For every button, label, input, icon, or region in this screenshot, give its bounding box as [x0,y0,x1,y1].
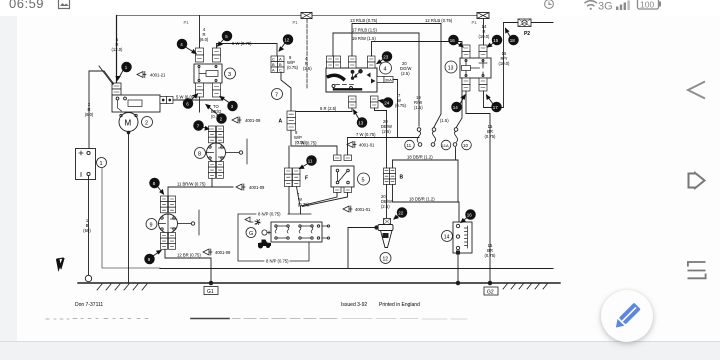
starter solenoid box [112,95,160,112]
wire: comp8 bottom to 11BRW line [211,178,213,187]
label circle 11A [441,140,451,150]
legend inner fuse panel [271,222,322,242]
splice dot 15 [488,35,502,47]
fusible link 11A [431,128,436,147]
wire: relay13 bottom-left to 15BR earth [466,91,490,283]
fuse P2 [518,19,531,27]
component 8 top connector columns [209,126,224,143]
splice dot 2 [206,105,226,124]
component label circle 9 [146,219,157,230]
connector P1 on top rail (x=484) [477,13,489,19]
relay13 top-left connector stack [462,45,470,58]
splice dot 13 [354,110,367,127]
component 8 bottom connector columns [209,162,224,179]
node F connector columns [285,168,301,187]
wire: starter earth [128,134,130,284]
splice dot 9 [145,251,161,264]
wire: 5W from solenoid to relay contacts [173,97,222,100]
horn coil block [383,233,389,238]
wire: node A down and 7W to switch5 [291,130,337,155]
legend arrow and star [245,217,260,225]
splice dot 1 [116,62,131,80]
wire: relay3 bottom-left down [199,97,201,112]
wire: 15 R/Y from P2 down to relay13 [484,23,504,108]
relay3 top-right connector stack [213,48,221,62]
probe terminal right of component 8 [226,139,248,164]
junction dot comp16 rail [456,281,460,285]
label circle 10 [462,140,472,150]
G1 box [204,287,218,295]
wire: grid 7 down to node A [281,73,291,112]
wire: battery feed 5R down from rail [116,16,118,84]
node C1 connector under wire 5R [112,83,121,95]
arrow 4001-01 switch5 [347,142,375,148]
wire: main supply top rail [117,15,479,17]
wire: 4R pilot from rail connector [306,19,308,89]
component label circle 12 [380,253,391,264]
pen scribble mark [57,258,65,270]
switch 5 box [331,166,354,187]
wire: P2 rail [504,22,554,24]
floating action button [601,290,653,342]
splice dot 11 [300,156,317,169]
legend key symbol [262,230,273,235]
component label circle 5 [358,173,370,185]
probe terminal right of component 9 [178,210,200,235]
wire: 13/12 R/LB feed to link2 [352,24,441,128]
ignition top connector stack x352 [349,56,357,68]
ignition top connector stack x371 [368,56,376,68]
junction dot on earth rail at G1 [209,281,213,285]
component label circle 4 [380,62,392,74]
wire: 20DG/W from fuse 30A down [393,80,398,138]
relay13 bottom-right connector stack [479,78,487,91]
status bar [0,0,720,16]
wire: battery positive cable 2R [89,71,114,148]
wire: 14R feed from P1 to relay13 [483,19,485,46]
component label circle 13 [445,61,457,73]
splice dot 16b [461,210,475,223]
switch5 bottom connectors [334,187,352,193]
junction dot G2 rail [488,281,492,285]
wifi icon [585,1,597,10]
next-page icon [689,172,705,189]
component label circle 7 [272,89,283,100]
screenshot notification icon [59,0,70,9]
fusible link 10 [453,128,458,147]
wire: ignition acc to 18DB/R line [375,108,387,111]
wire: node F down to legend top line [288,187,290,214]
back chevron icon [688,82,705,99]
splice dot 18 [506,29,519,45]
fuse 30A on ignition [377,77,393,83]
splice dot 6 [183,94,197,108]
component label circle 1 [97,158,107,168]
legend boundary [238,214,311,261]
splice dot 8 [150,178,164,194]
wire: 9W from relay3 to fuse grid 7 [217,44,278,57]
horn body [378,225,393,231]
junction blob comp16 bottom [456,251,460,255]
black callout dots with arrows [116,29,518,264]
ignition bottom connector stack x352 [349,96,357,108]
wire: link3 bottom down to 18DB/R [455,148,457,161]
junction blob at horn terminal [375,226,378,229]
wire: 18DB/R lower line from node B to comp16 [393,185,460,223]
label circle 11 [405,140,415,150]
ground hatch left group [97,284,147,290]
G2 box [484,287,498,295]
splice dot 22 [394,208,407,219]
splice dot 14 [452,95,465,112]
splice dot 17 [487,95,502,112]
wire: 12 BR earth from comp9 [165,249,211,283]
battery 1 [76,149,96,180]
wire: 7W line from switch5 to link1 [348,138,420,156]
component 16 box [453,222,472,253]
relay13 bottom-left connector stack [462,78,470,91]
label: 5 R (12.0) [83,20,298,233]
arrow 4001-21 [137,72,166,78]
bottom bar [0,341,720,360]
relay13 top-right connector stack [479,45,487,58]
arrow 4001-01 below switch5 [343,206,371,212]
fusible link 11 [417,128,422,147]
component label circle 2 (starter) [142,117,153,128]
wire: engine earth strap [102,168,160,268]
component 9 bottom connector columns [161,233,176,250]
horn cone [381,231,393,248]
wire: 19 R/W feed to link3 [372,42,463,128]
splice dot 23 [377,52,392,64]
relay 13 box [460,58,491,78]
clock icon [545,0,554,8]
legend panel right stubs [322,226,327,238]
switch5 top connectors [334,155,352,161]
component 9 top connector columns [161,196,176,213]
wire: comp9 top from line [167,187,169,196]
scan artifact dashes bottom [46,318,467,321]
signal bars [616,1,630,11]
splice dot 16a [449,35,463,47]
left gray strip outside scanned page [0,16,17,342]
arrow 4001-09 comp9 bottom [203,249,231,255]
component label circle 3 [225,68,236,79]
status bar icons svg [0,0,720,16]
node A connector column [287,111,296,130]
connector pair right of solenoid [160,97,173,104]
relay3 bottom-right connector stack [213,83,221,97]
wire: horn earth to left [348,228,378,269]
splice dot 24 [379,98,393,108]
splice dot 5 [218,31,232,46]
component label circle 14 [442,231,453,242]
legend circle G [246,228,256,238]
wire: 11 BR/W line [168,186,233,188]
wire: 6R ignition to node A [291,108,352,112]
ground hatch right group [503,284,548,290]
inline connector arrow symbols (4001-xx) [137,72,375,256]
arrow 4001-09 comp8 top [232,117,261,123]
splice dot 4 [177,39,196,53]
list icon [688,262,706,278]
wire: comp16 earth [457,253,459,283]
node B connector columns [384,168,396,185]
wire: stub into C1 from left [99,66,113,85]
connector on top rail (x=307) [301,13,312,19]
horn connector box [384,219,391,225]
wire: switch5 bottoms merge to legend [301,193,338,215]
earth rail main (chassis) [78,282,560,284]
relay3 bottom-left connector stack [196,83,204,97]
relay3 top-left connector stack [196,48,204,62]
legend tractor icon [258,240,271,249]
ground circle terminal [85,275,91,281]
wire: 18DB/R upper line from node B to x458 [393,160,459,202]
ignition top connector stack x333 double [327,56,341,68]
wire: 4R feed from rail to relay3 [199,16,201,49]
splice dot 12 [279,35,293,51]
splice dot 7 [194,121,209,131]
wire: 20DB/W down to horn [386,111,388,220]
wire: node F up to 7W line [288,146,290,168]
splice dot 3 [220,97,237,111]
relay 3 box [194,64,222,83]
wire: 17 R/LB feed to link1 [333,33,419,126]
fuse grid 7 (C B A) [271,56,284,73]
earth rail upper [160,268,553,270]
component 9 motor body [159,214,178,233]
component 8 motor body [207,143,226,162]
starter motor M [119,113,138,134]
battery icon with 100 [638,0,662,10]
arrow 4001-09 comp8 bottom [236,184,265,190]
ignition bottom connector stack x374 [371,96,379,108]
wire: switch5 bottom right merge [303,193,348,207]
component label circle 8 [195,148,206,159]
wire: battery negative cable 1B to ground [88,176,90,276]
ignition switch 4 box [326,68,377,92]
wire: node F right column down [297,187,301,206]
